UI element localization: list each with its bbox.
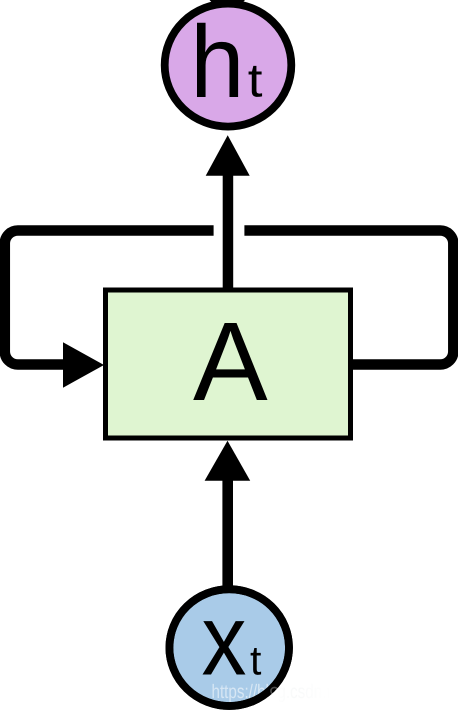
arrowhead input (205, 441, 251, 481)
node x_t circle (169, 589, 289, 706)
node x_t circle ring redraw (169, 589, 289, 706)
wire recurrent-loop (5, 231, 454, 365)
wire output arrow shaft (223, 170, 234, 294)
arrowhead output (206, 135, 250, 176)
svg-text:t: t (250, 638, 262, 684)
wire stub cropped at top (210, 0, 246, 6)
svg-text:A: A (193, 299, 268, 424)
wire crossing gap (214, 222, 245, 239)
svg-text:x: x (202, 585, 247, 697)
wire input arrow shaft (222, 474, 233, 590)
box A (106, 290, 351, 438)
watermark letter ghost on ring (271, 687, 278, 694)
arrowhead loop-into-A (63, 342, 104, 387)
svg-text:t: t (248, 55, 263, 108)
node h_t circle (165, 4, 292, 127)
svg-text:h: h (190, 4, 244, 119)
